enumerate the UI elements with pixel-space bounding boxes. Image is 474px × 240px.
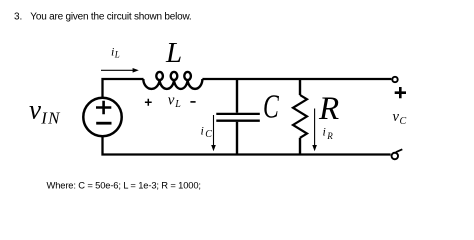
wire resistor top lead (299, 79, 301, 95)
capacitor C plates (216, 114, 259, 121)
resistor R zigzag (293, 95, 307, 138)
current arrow iR (312, 109, 317, 152)
label iL (111, 45, 120, 60)
voltage source VIN circle (83, 98, 121, 136)
svg-text:C: C (263, 88, 279, 125)
svg-text:i: i (323, 125, 326, 139)
svg-text:L: L (174, 99, 181, 110)
output terminal top (open circle) (392, 77, 397, 82)
svg-text:L: L (165, 37, 182, 69)
wire bottom horizontal (103, 137, 391, 155)
label + (output polarity) (395, 87, 406, 98)
voltage source minus sign (96, 122, 111, 125)
current arrow iC (211, 115, 216, 151)
label + vL - (145, 93, 196, 110)
inductor L coil (143, 72, 202, 89)
svg-text:i: i (201, 124, 204, 138)
svg-text:v: v (29, 95, 41, 125)
label vIN (29, 95, 61, 128)
wire resistor bottom lead (299, 138, 301, 155)
current arrow iL (101, 68, 139, 73)
voltage source plus sign (96, 101, 111, 114)
label iR (323, 125, 334, 141)
wire top-right horizontal (inductor to output terminal) (202, 78, 391, 80)
svg-text:Where: C = 50e-6; L = 1e-3; R: Where: C = 50e-6; L = 1e-3; R = 1000; (47, 179, 201, 190)
svg-text:R: R (318, 91, 339, 127)
svg-text:3.: 3. (14, 12, 22, 23)
svg-text:You are given the circuit show: You are given the circuit shown below. (30, 12, 191, 23)
svg-text:IN: IN (40, 109, 61, 128)
label vC (393, 109, 407, 127)
svg-text:R: R (326, 131, 333, 141)
wire top-left horizontal (source to inductor) (103, 79, 144, 98)
svg-text:L: L (114, 50, 120, 60)
svg-text:v: v (168, 93, 175, 109)
output terminal bottom (open circle with tick) (392, 149, 403, 159)
label iC (201, 124, 213, 140)
problem text line (14, 12, 192, 23)
svg-text:v: v (393, 109, 400, 125)
svg-text:C: C (400, 116, 407, 127)
svg-text:C: C (205, 129, 212, 140)
wire capacitor bottom lead (236, 122, 238, 155)
wire capacitor top lead (236, 79, 238, 113)
